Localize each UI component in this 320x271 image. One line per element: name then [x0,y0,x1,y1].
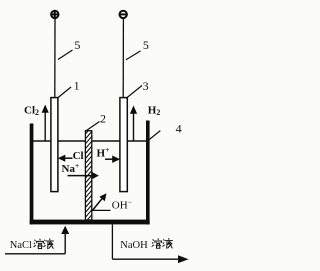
svg-text:NaOH: NaOH [120,240,148,251]
svg-text:4: 4 [176,122,182,136]
svg-text:1: 1 [74,79,80,93]
svg-text:5: 5 [74,38,80,52]
svg-text:NaCl: NaCl [10,240,32,251]
svg-text:5: 5 [143,38,149,52]
svg-text:3: 3 [143,79,149,93]
svg-text:2: 2 [100,111,106,125]
